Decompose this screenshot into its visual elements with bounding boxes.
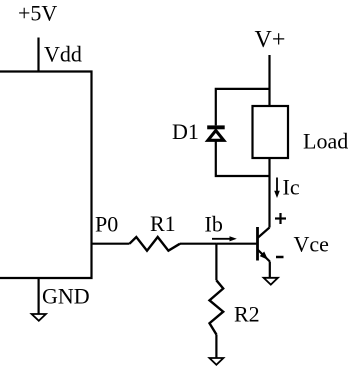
svg-text:R2: R2 xyxy=(234,302,260,327)
ground (emitter) xyxy=(264,278,278,285)
diode D1 xyxy=(207,125,225,140)
ground (R2) xyxy=(209,358,223,365)
svg-text:P0: P0 xyxy=(95,212,118,237)
wire base node to transistor base xyxy=(216,243,256,245)
MCU U1 outline xyxy=(0,72,92,279)
svg-text:GND: GND xyxy=(42,284,90,309)
wire load to collector xyxy=(268,158,270,228)
wire top branch to D1 xyxy=(216,89,270,126)
wire GND pin xyxy=(37,278,39,314)
svg-text:+5V: +5V xyxy=(18,1,57,26)
load LOAD1 xyxy=(253,106,289,158)
svg-text:Vdd: Vdd xyxy=(44,42,82,67)
wire base node down to R2 xyxy=(215,244,217,281)
current arrow Ic xyxy=(274,178,280,199)
wire R1 to base node xyxy=(180,243,216,245)
wire R2 to ground xyxy=(215,335,217,359)
svg-text:Ib: Ib xyxy=(205,211,223,236)
svg-text:Vce: Vce xyxy=(294,232,329,257)
resistor R2 xyxy=(210,280,224,334)
wire P0 to R1 xyxy=(92,243,130,245)
resistor R1 xyxy=(130,237,181,251)
svg-text:R1: R1 xyxy=(150,211,176,236)
svg-text:Ic: Ic xyxy=(283,175,300,200)
svg-text:V+: V+ xyxy=(255,27,286,53)
polarity label + xyxy=(275,213,286,224)
wire emitter to ground xyxy=(269,262,271,278)
current arrow Ib xyxy=(212,236,237,241)
wire Vdd pin xyxy=(37,38,39,72)
transistor Q1 xyxy=(258,227,270,262)
polarity label - xyxy=(276,256,284,259)
svg-text:D1: D1 xyxy=(172,119,199,144)
wire D1 to bottom branch xyxy=(216,141,270,176)
ground (MCU GND) xyxy=(32,314,46,321)
svg-text:Load: Load xyxy=(303,129,348,154)
wire V+ down to load xyxy=(268,55,270,106)
